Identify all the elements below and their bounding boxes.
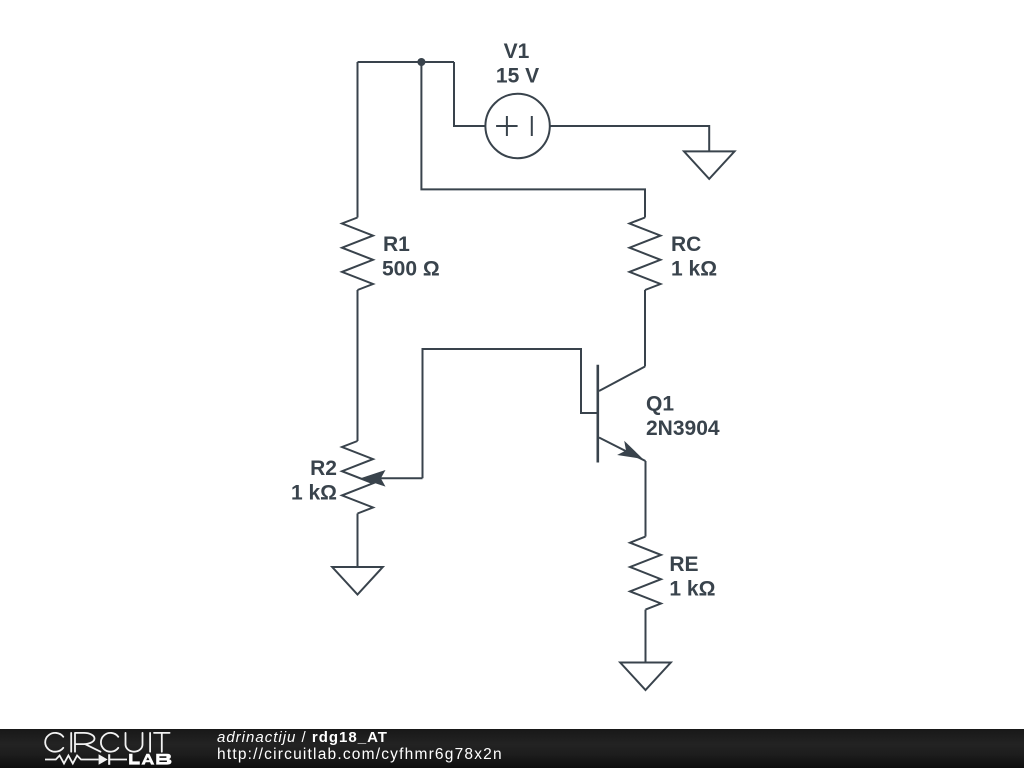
- svg-text:Q1: Q1: [646, 392, 674, 415]
- svg-text:2N3904: 2N3904: [646, 417, 720, 440]
- svg-text:1 kΩ: 1 kΩ: [291, 482, 337, 505]
- svg-text:1 kΩ: 1 kΩ: [671, 258, 717, 281]
- svg-text:RC: RC: [671, 233, 701, 256]
- svg-text:RE: RE: [669, 553, 698, 576]
- svg-text:R1: R1: [383, 233, 410, 256]
- svg-text:15 V: 15 V: [496, 65, 539, 88]
- svg-text:500 Ω: 500 Ω: [382, 258, 440, 281]
- svg-text:R2: R2: [310, 457, 337, 480]
- svg-text:1 kΩ: 1 kΩ: [669, 578, 715, 601]
- svg-text:V1: V1: [504, 40, 530, 63]
